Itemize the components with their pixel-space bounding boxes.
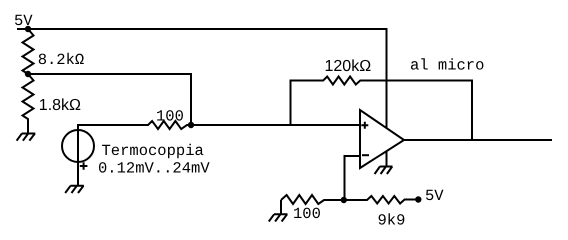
svg-text:120kΩ: 120kΩ [325, 58, 372, 75]
svg-text:9k9: 9k9 [378, 212, 406, 230]
svg-text:100: 100 [293, 205, 321, 223]
svg-text:Termocoppia: Termocoppia [102, 142, 204, 160]
svg-text:1.8kΩ: 1.8kΩ [39, 97, 81, 114]
svg-text:0.12mV..24mV: 0.12mV..24mV [98, 160, 210, 178]
svg-text:100: 100 [156, 108, 184, 126]
svg-text:8.2kΩ: 8.2kΩ [38, 51, 85, 69]
svg-text:5V: 5V [14, 12, 33, 30]
svg-text:al micro: al micro [410, 57, 484, 75]
svg-text:5V: 5V [425, 187, 444, 205]
